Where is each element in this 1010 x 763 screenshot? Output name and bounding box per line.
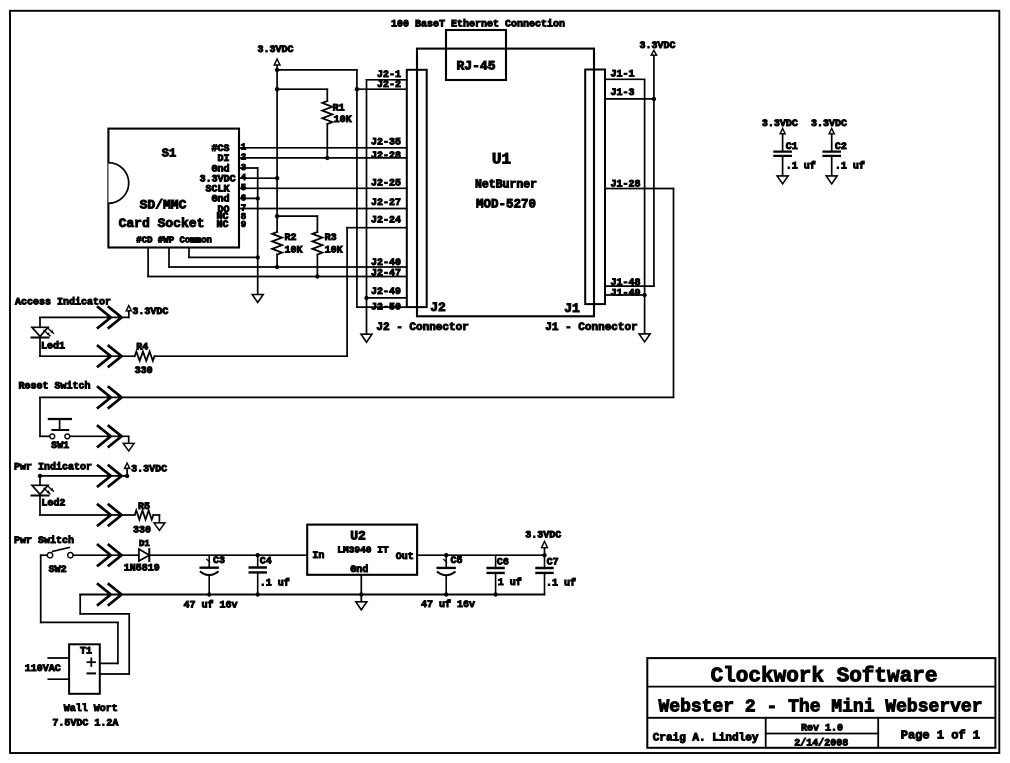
svg-text:3.3VDC: 3.3VDC xyxy=(640,41,676,52)
svg-text:C1: C1 xyxy=(786,142,798,153)
svg-text:Pwr Indicator: Pwr Indicator xyxy=(14,461,92,473)
svg-text:J1 - Connector: J1 - Connector xyxy=(545,322,637,334)
svg-text:Pwr Switch: Pwr Switch xyxy=(14,535,74,547)
svg-text:1 uf: 1 uf xyxy=(498,577,522,589)
svg-text:.1 uf: .1 uf xyxy=(835,161,865,173)
svg-text:C3: C3 xyxy=(213,556,225,567)
svg-text:SW1: SW1 xyxy=(51,441,69,452)
svg-text:330: 330 xyxy=(133,525,151,536)
svg-text:J2: J2 xyxy=(430,300,446,315)
svg-text:In: In xyxy=(312,551,324,562)
svg-text:J2-27: J2-27 xyxy=(371,198,401,209)
svg-text:3.3VDC: 3.3VDC xyxy=(258,45,294,56)
svg-text:1N5819: 1N5819 xyxy=(124,564,160,575)
svg-text:C6: C6 xyxy=(497,557,509,568)
svg-text:100 BaseT Ethernet Connection: 100 BaseT Ethernet Connection xyxy=(391,19,565,31)
svg-text:MOD-5270: MOD-5270 xyxy=(476,198,536,212)
svg-text:J2-25: J2-25 xyxy=(371,178,401,189)
svg-text:T1: T1 xyxy=(80,647,92,658)
svg-text:R2: R2 xyxy=(285,233,297,244)
svg-text:9: 9 xyxy=(241,220,246,230)
svg-text:.1 uf: .1 uf xyxy=(546,577,576,589)
svg-text:J2 - Connector: J2 - Connector xyxy=(376,322,468,334)
svg-text:J2-50: J2-50 xyxy=(371,302,401,313)
svg-text:NetBurner: NetBurner xyxy=(475,179,537,192)
svg-text:SW2: SW2 xyxy=(49,565,67,576)
svg-text:Reset Switch: Reset Switch xyxy=(19,381,91,393)
svg-text:R1: R1 xyxy=(333,104,345,115)
svg-text:J1-3: J1-3 xyxy=(611,88,635,99)
svg-text:Card Socket: Card Socket xyxy=(119,216,205,231)
svg-text:Page 1 of 1: Page 1 of 1 xyxy=(901,729,980,743)
svg-text:47 uf 16v: 47 uf 16v xyxy=(421,599,475,611)
svg-text:R5: R5 xyxy=(138,502,150,513)
svg-text:S1: S1 xyxy=(162,147,176,161)
svg-text:7.5VDC 1.2A: 7.5VDC 1.2A xyxy=(52,719,118,730)
svg-text:10K: 10K xyxy=(285,246,303,257)
svg-text:D1: D1 xyxy=(139,539,150,549)
svg-text:C2: C2 xyxy=(835,142,847,153)
svg-text:RJ-45: RJ-45 xyxy=(456,59,495,74)
svg-text:Led2: Led2 xyxy=(41,498,65,510)
svg-text:LM3940 IT: LM3940 IT xyxy=(337,545,389,556)
svg-text:47 uf 16v: 47 uf 16v xyxy=(184,599,238,611)
svg-text:U1: U1 xyxy=(492,151,511,169)
svg-text:SD/MMC: SD/MMC xyxy=(140,198,187,213)
svg-text:3.3VDC: 3.3VDC xyxy=(811,119,847,130)
svg-text:10K: 10K xyxy=(334,115,352,126)
svg-text:Clockwork Software: Clockwork Software xyxy=(711,666,938,689)
svg-text:Webster 2 - The Mini Webserver: Webster 2 - The Mini Webserver xyxy=(658,698,982,718)
svg-text:J2-2: J2-2 xyxy=(377,80,401,91)
svg-text:J1-49: J1-49 xyxy=(611,289,641,300)
svg-text:.1 uf: .1 uf xyxy=(786,161,816,173)
svg-text:3.3VDC: 3.3VDC xyxy=(132,307,168,318)
svg-text:R3: R3 xyxy=(325,233,337,244)
svg-text:330: 330 xyxy=(135,366,153,377)
svg-text:#CD #WP Common: #CD #WP Common xyxy=(136,235,212,245)
svg-text:Led1: Led1 xyxy=(41,341,65,353)
svg-text:J2-35: J2-35 xyxy=(371,138,401,149)
svg-text:10K: 10K xyxy=(325,246,343,257)
svg-text:J2-28: J2-28 xyxy=(371,151,401,162)
svg-text:2/14/2008: 2/14/2008 xyxy=(794,738,848,750)
svg-text:110VAC: 110VAC xyxy=(25,664,61,675)
svg-text:U2: U2 xyxy=(350,529,366,544)
svg-text:3.3VDC: 3.3VDC xyxy=(762,119,798,130)
svg-text:J2-49: J2-49 xyxy=(371,287,401,298)
svg-text:J2-40: J2-40 xyxy=(371,258,401,269)
svg-text:C7: C7 xyxy=(547,557,559,568)
svg-text:J1-48: J1-48 xyxy=(611,278,641,289)
svg-text:NC: NC xyxy=(216,220,228,231)
svg-text:Wall Wort: Wall Wort xyxy=(64,703,118,715)
svg-text:Gnd: Gnd xyxy=(350,564,368,576)
svg-text:R4: R4 xyxy=(136,342,148,353)
svg-text:J1: J1 xyxy=(564,301,580,316)
svg-text:J2-24: J2-24 xyxy=(371,215,401,226)
svg-text:Out: Out xyxy=(396,552,414,563)
svg-text:Rev 1.0: Rev 1.0 xyxy=(801,723,843,734)
svg-text:3.3VDC: 3.3VDC xyxy=(525,530,561,541)
svg-text:J2-47: J2-47 xyxy=(371,269,401,280)
svg-text:C5: C5 xyxy=(451,556,463,567)
svg-text:C4: C4 xyxy=(260,557,272,568)
svg-text:3.3VDC: 3.3VDC xyxy=(131,464,167,475)
svg-text:Craig A. Lindley: Craig A. Lindley xyxy=(653,733,759,745)
svg-text:.1 uf: .1 uf xyxy=(260,577,290,589)
